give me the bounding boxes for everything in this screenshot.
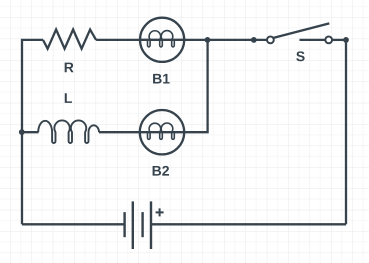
lamp B1 circle xyxy=(140,18,184,62)
switch S right terminal circle xyxy=(325,37,332,44)
battery plate short xyxy=(141,212,143,237)
junction dot: top-right corner xyxy=(343,37,349,43)
wire: through lamp B1 xyxy=(139,39,185,41)
switch S fixed contact lead xyxy=(300,39,326,41)
lamp B1 filament xyxy=(148,31,175,47)
label R xyxy=(65,63,74,73)
junction dot: before switch xyxy=(251,37,257,43)
wire: switch to top-right corner xyxy=(332,39,346,41)
label B1 xyxy=(153,74,170,84)
wire: lamp B2 right, up to top junction xyxy=(185,40,208,132)
wire: resistor to lamp B1 xyxy=(96,39,139,41)
switch S left terminal circle xyxy=(267,37,274,44)
resistor R zigzag xyxy=(43,30,96,49)
wire: right rail xyxy=(345,40,347,224)
wire: inductor branch from left rail xyxy=(22,131,39,133)
wire: inductor to lamp B2 xyxy=(99,131,139,133)
junction dot: B2 branch meets top wire xyxy=(205,37,211,43)
label L xyxy=(65,93,72,103)
wire: lamp B1 to switch xyxy=(185,39,267,41)
label B2 xyxy=(153,166,169,176)
junction dot: left rail / inductor branch xyxy=(19,129,25,135)
wire: battery to bottom left xyxy=(22,223,125,225)
battery plate short (left) xyxy=(123,212,125,237)
battery plate long (right) xyxy=(150,201,152,249)
wire: through lamp B2 xyxy=(139,131,186,133)
wire: bottom right to battery xyxy=(151,223,346,225)
lamp B2 circle xyxy=(140,110,184,154)
label S xyxy=(296,51,304,61)
battery plate long xyxy=(132,201,134,249)
lamp B2 filament xyxy=(148,123,175,139)
battery plus sign xyxy=(156,208,164,216)
wire: left rail and top-left xyxy=(22,40,43,224)
switch S lever xyxy=(273,23,329,38)
inductor L coil xyxy=(38,120,99,143)
